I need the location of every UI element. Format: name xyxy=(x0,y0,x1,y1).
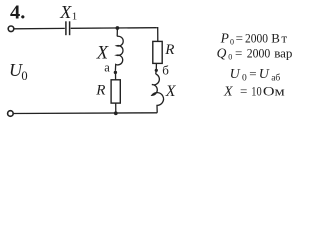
wire: top middle segment (capacitor to right corner) xyxy=(71,27,157,30)
junction node (bottom of left branch) xyxy=(114,111,118,115)
svg-text:Q0=2000вар: Q0=2000вар xyxy=(217,46,293,62)
junction node (top of left branch) xyxy=(116,26,120,30)
node a dot xyxy=(114,71,117,74)
svg-text:R: R xyxy=(95,83,105,99)
wire: top left segment (terminal to capacitor) xyxy=(14,27,65,29)
svg-text:P0=2000Вт: P0=2000Вт xyxy=(220,30,288,46)
svg-text:X=10: X=10 xyxy=(223,83,262,99)
wire: left branch top stub xyxy=(116,28,118,36)
svg-text:X: X xyxy=(59,2,72,22)
svg-text:1: 1 xyxy=(72,11,78,23)
wire: node b to coil xyxy=(155,70,158,74)
inductor X (right branch coil) xyxy=(152,74,164,113)
svg-text:а: а xyxy=(104,61,110,75)
svg-text:Ом: Ом xyxy=(263,85,285,99)
wire: node a to resistor xyxy=(115,72,117,79)
terminal (bottom left) xyxy=(8,111,14,117)
svg-text:4.: 4. xyxy=(10,1,25,23)
resistor R (right branch) xyxy=(153,41,162,63)
resistor R (left branch) xyxy=(111,80,120,103)
svg-text:X: X xyxy=(165,83,177,100)
inductor X (left branch coil) xyxy=(115,36,123,71)
svg-text:U0=Uаб: U0=Uаб xyxy=(230,66,281,83)
svg-text:0: 0 xyxy=(21,69,27,83)
capacitor X1 plate right xyxy=(69,21,71,35)
wire: resistor to bottom wire xyxy=(115,103,117,113)
terminal (top left) xyxy=(8,26,14,32)
capacitor X1 plate left xyxy=(65,21,67,35)
wire: right branch top stub xyxy=(157,28,158,42)
wire: resistor to node b xyxy=(155,63,157,70)
node b dot xyxy=(155,69,158,72)
svg-text:R: R xyxy=(164,42,174,58)
wire: bottom segment xyxy=(13,112,157,115)
svg-text:б: б xyxy=(162,63,169,78)
